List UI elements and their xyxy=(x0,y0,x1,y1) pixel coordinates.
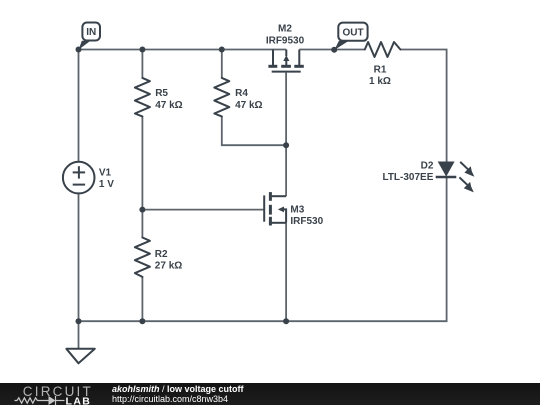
svg-text:IRF9530: IRF9530 xyxy=(266,36,305,47)
svg-text:IN: IN xyxy=(86,27,96,38)
svg-text:1 kΩ: 1 kΩ xyxy=(369,76,391,87)
svg-text:LTL-307EE: LTL-307EE xyxy=(382,172,433,183)
svg-text:M2: M2 xyxy=(278,24,292,35)
svg-text:R2: R2 xyxy=(155,249,168,260)
svg-text:V1: V1 xyxy=(99,168,112,179)
svg-text:R5: R5 xyxy=(155,88,168,99)
svg-text:27 kΩ: 27 kΩ xyxy=(155,261,182,272)
svg-text:OUT: OUT xyxy=(342,27,363,38)
svg-text:IRF530: IRF530 xyxy=(290,216,323,227)
svg-text:M3: M3 xyxy=(290,204,304,215)
svg-text:D2: D2 xyxy=(421,160,434,171)
svg-text:R1: R1 xyxy=(374,65,387,76)
svg-text:1 V: 1 V xyxy=(99,179,114,190)
svg-text:47 kΩ: 47 kΩ xyxy=(235,100,262,111)
svg-text:R4: R4 xyxy=(235,88,248,99)
svg-text:LAB: LAB xyxy=(66,396,92,405)
svg-text:47 kΩ: 47 kΩ xyxy=(155,100,182,111)
